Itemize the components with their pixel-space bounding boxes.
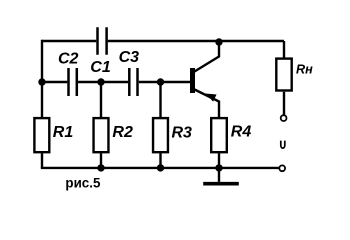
svg-text:рис.5: рис.5	[65, 176, 100, 191]
junction node R3 / bottom rail	[157, 164, 164, 171]
junction node C1 / R2 top	[97, 78, 104, 85]
wire R4 lead	[218, 153, 220, 168]
junction node R2 / bottom rail	[97, 164, 104, 171]
svg-text:R4: R4	[231, 123, 252, 140]
wire R3 branch	[159, 82, 161, 168]
wire Rn branch	[283, 41, 285, 115]
resistor Rн	[276, 59, 291, 91]
capacitor C1	[98, 27, 107, 54]
wire top rail	[42, 40, 284, 42]
svg-text:R2: R2	[112, 124, 133, 141]
transistor VT1 (PNP)	[190, 40, 219, 117]
wire bottom rail	[41, 167, 279, 169]
svg-text:C2: C2	[58, 50, 79, 67]
terminal circle output top	[281, 115, 287, 121]
resistor R1	[34, 118, 49, 152]
wire base line	[42, 81, 190, 83]
svg-text:R1: R1	[53, 124, 74, 141]
wire left rail	[41, 40, 43, 168]
junction node R4 / bottom rail	[215, 164, 222, 171]
junction node left rail / base line	[38, 78, 45, 85]
ground	[203, 168, 239, 184]
junction node R3 top / base	[157, 78, 164, 85]
terminal circle output bottom	[279, 165, 285, 171]
svg-text:C3: C3	[119, 49, 140, 66]
svg-text:C1: C1	[90, 59, 111, 76]
resistor R4	[211, 118, 227, 152]
capacitor C3	[129, 68, 137, 96]
label U	[281, 141, 285, 148]
wire R2 branch	[100, 82, 102, 168]
resistor R3	[153, 118, 168, 152]
resistor R2	[94, 118, 109, 152]
svg-text:R3: R3	[172, 124, 193, 141]
capacitor C2	[69, 68, 77, 96]
junction node collector / top rail	[215, 38, 222, 45]
svg-text:Rн: Rн	[296, 62, 313, 76]
